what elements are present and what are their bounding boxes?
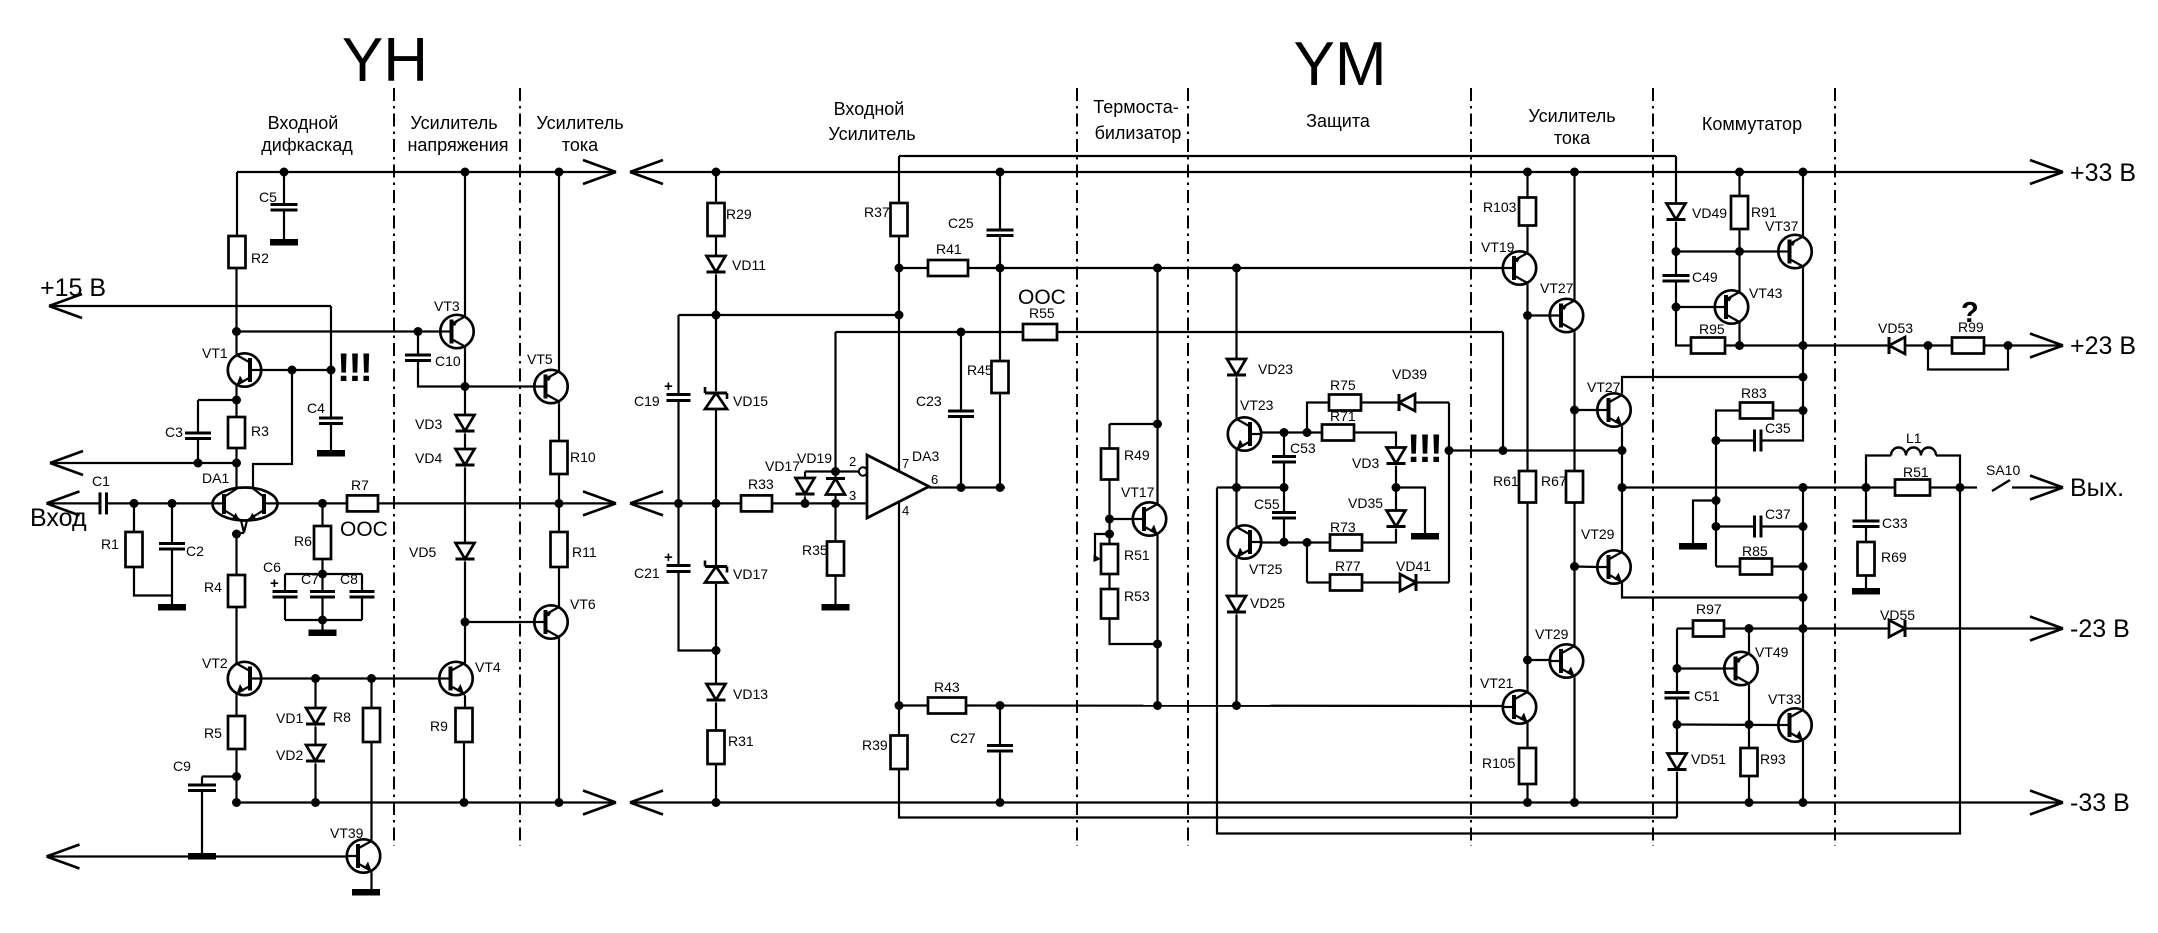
node: rail VT27u tap bbox=[1570, 168, 1579, 177]
node: VT33 base tap bbox=[1673, 720, 1682, 729]
arrow: VT39 base west bbox=[47, 845, 80, 869]
wire: R43 line to VT21 bbox=[966, 704, 1503, 707]
wire: R41 line segment bbox=[899, 267, 928, 269]
wire: VD17 cathode stub bbox=[804, 497, 806, 504]
svg-text:R69: R69 bbox=[1881, 549, 1907, 565]
svg-text:L1: L1 bbox=[1906, 430, 1922, 446]
svg-text:VT33: VT33 bbox=[1768, 691, 1802, 707]
wire: VT27u base line bbox=[1528, 314, 1550, 316]
wire: rail to C5 bbox=[283, 172, 285, 205]
svg-text:R4: R4 bbox=[204, 579, 222, 595]
node: zener col input tap bbox=[712, 499, 721, 508]
wire: VD35 drop bbox=[1395, 488, 1397, 511]
wire: VT2 base line bbox=[261, 677, 439, 679]
wire: R77 to VD41 bbox=[1362, 581, 1400, 583]
resistor R53 bbox=[1101, 588, 1150, 619]
wire: C55 to VT25 base line bbox=[1283, 518, 1285, 542]
wire: C23 drop bbox=[960, 332, 962, 411]
capacitor C5 bbox=[259, 189, 298, 210]
svg-text:VD5: VD5 bbox=[409, 544, 436, 560]
wire: VT27L emitter bbox=[1621, 427, 1623, 451]
wire: R3 to DA1 bbox=[235, 448, 237, 488]
wire: +15 В line bbox=[49, 305, 331, 307]
svg-text:Коммутатор: Коммутатор bbox=[1702, 114, 1802, 134]
resistor R49 bbox=[1101, 447, 1150, 480]
transistor VT39 bbox=[330, 825, 380, 873]
node: VT37 emitter +23 tap bbox=[1799, 341, 1808, 350]
wire: VT27u collector bbox=[1573, 172, 1575, 299]
wire: SA10 to arrow bbox=[2012, 486, 2063, 488]
node: C55-R77 tap bbox=[1303, 538, 1312, 547]
svg-text:Термоста-: Термоста- bbox=[1093, 97, 1178, 117]
wire: R45 to output bbox=[999, 393, 1001, 488]
node: R3 bottom / left-line end bbox=[232, 459, 241, 468]
node: R1 tap bbox=[130, 499, 139, 508]
svg-text:Защита: Защита bbox=[1306, 111, 1371, 131]
svg-text:Усилитель: Усилитель bbox=[828, 124, 915, 144]
wire: VD17z to node bbox=[715, 584, 717, 651]
wire: VT39 base line bbox=[47, 855, 347, 857]
capacitor C10 bbox=[405, 353, 461, 369]
svg-text:VT25: VT25 bbox=[1249, 561, 1283, 577]
diode VD2 bbox=[276, 745, 325, 763]
capacitor C6 bbox=[263, 559, 298, 597]
node: pin2 / VD19 junction bbox=[831, 467, 840, 476]
node: C35 left bbox=[1712, 436, 1721, 445]
zener VD17 (lower) bbox=[705, 561, 768, 583]
diode VD51 bbox=[1668, 751, 1727, 770]
wire: R8 to VT39 collector bbox=[370, 742, 372, 840]
svg-text:C4: C4 bbox=[307, 400, 325, 416]
node: R8 tap bbox=[367, 674, 376, 683]
wire: VT49 base line bbox=[1677, 667, 1724, 669]
capacitor C19 bbox=[634, 378, 691, 409]
wire: VD19 bottom stub bbox=[834, 495, 836, 504]
transistor VT5 bbox=[527, 351, 568, 403]
wire: VT37 emitter to y377 bbox=[1802, 346, 1804, 378]
wire: C4 to ground bbox=[330, 424, 332, 451]
node: VT49 base tap bbox=[1673, 664, 1682, 673]
transistor VT17 bbox=[1121, 484, 1166, 536]
node: VT49 emitter / VT33 base bbox=[1745, 720, 1754, 729]
node: C53 top bbox=[1280, 428, 1289, 437]
svg-text:VT49: VT49 bbox=[1755, 644, 1789, 660]
wire: L1 right riser bbox=[1936, 456, 1960, 488]
node: C9 tap bbox=[232, 772, 241, 781]
wire: pin2 line bbox=[805, 470, 862, 472]
svg-text:+15 В: +15 В bbox=[40, 274, 106, 302]
wire: C4 drop bbox=[330, 370, 332, 418]
svg-text:DA1: DA1 bbox=[202, 470, 229, 486]
svg-text:Вых.: Вых. bbox=[2070, 474, 2124, 502]
svg-text:C35: C35 bbox=[1765, 420, 1791, 436]
switch SA10 bbox=[1986, 462, 2020, 491]
node: VD11 bottom junction bbox=[712, 311, 721, 320]
svg-text:VD55: VD55 bbox=[1880, 607, 1915, 623]
wire: R83 left link bbox=[1716, 411, 1740, 441]
wire: R11 to VT6 collector bbox=[558, 567, 560, 606]
wire: +23 line R95-VD53 bbox=[1725, 344, 1889, 346]
wire: R4 to VT2 collector bbox=[235, 607, 237, 662]
wire: R9 to rail bbox=[463, 742, 465, 803]
label ООС (УМ) bbox=[1018, 286, 1066, 309]
resistor R11 bbox=[551, 532, 597, 567]
header: Защита bbox=[1306, 111, 1371, 131]
wire: input to VD17z bbox=[715, 503, 717, 565]
wire: junction to ground bbox=[1396, 488, 1425, 534]
svg-text:C10: C10 bbox=[435, 353, 461, 369]
svg-text:VT27: VT27 bbox=[1587, 379, 1621, 395]
arrow: УМ -33 rail west bbox=[630, 791, 663, 815]
svg-text:VT43: VT43 bbox=[1749, 285, 1783, 301]
node: VT1 collector / VT3 base line bbox=[232, 327, 241, 336]
svg-text:C53: C53 bbox=[1290, 440, 1316, 456]
wire: DA1 emitters to R4 node bbox=[237, 532, 245, 534]
separator line 6 bbox=[1652, 88, 1654, 846]
svg-text:VD15: VD15 bbox=[733, 393, 768, 409]
capacitor C8 bbox=[340, 571, 375, 597]
resistor R41 bbox=[928, 241, 968, 276]
wire: VT43 emitter bbox=[1738, 324, 1740, 346]
wire: R49 lead bbox=[1108, 424, 1110, 449]
svg-text:R45: R45 bbox=[967, 362, 993, 378]
svg-text:DA3: DA3 bbox=[912, 448, 939, 464]
svg-text:C21: C21 bbox=[634, 565, 660, 581]
wire: R51 to R53 bbox=[1108, 574, 1110, 589]
diode VD39 bbox=[1392, 366, 1427, 411]
wire: VT27L base line bbox=[1575, 409, 1598, 411]
svg-text:VD13: VD13 bbox=[733, 686, 768, 702]
wire: R103 to VT19 bbox=[1526, 226, 1528, 252]
transistor VT29 (lower) bbox=[1535, 626, 1583, 678]
header: Усилитель (УМ) bbox=[828, 124, 915, 144]
wire: VT17 base line bbox=[1110, 518, 1133, 520]
svg-text:2: 2 bbox=[849, 454, 856, 469]
wire: left column R97 down bbox=[1676, 629, 1678, 693]
wire: R67 to VT29L bbox=[1573, 503, 1575, 645]
svg-text:7: 7 bbox=[902, 456, 909, 471]
svg-text:VT21: VT21 bbox=[1480, 675, 1514, 691]
svg-text:R93: R93 bbox=[1760, 751, 1786, 767]
node: rail R91 tap bbox=[1735, 168, 1744, 177]
wire: R77 drop bbox=[1306, 543, 1308, 583]
wire: R99 bypass loop bbox=[1928, 346, 2008, 370]
svg-text:Входной: Входной bbox=[834, 99, 905, 119]
svg-text:R53: R53 bbox=[1124, 588, 1150, 604]
separator line 1 bbox=[393, 88, 395, 846]
node: R75 tap bbox=[1303, 428, 1312, 437]
wire: УН top rail bbox=[237, 171, 616, 173]
resistor R10 bbox=[551, 441, 596, 474]
wire: C9 link bbox=[202, 775, 237, 777]
arrow: +15 В west bbox=[49, 294, 82, 318]
wire: y450 to y487 bbox=[1621, 451, 1623, 488]
wire: R85 right lead bbox=[1772, 565, 1803, 567]
node: cap bank top bbox=[318, 570, 327, 579]
wire: C23 to output bbox=[960, 417, 962, 488]
svg-text:R31: R31 bbox=[728, 733, 754, 749]
wire: C2 to ground bbox=[171, 549, 173, 604]
wire: VT21 emitter to R105 bbox=[1526, 724, 1528, 748]
wire: VD15 from y315 bbox=[715, 315, 717, 391]
ground: under cap bank bbox=[309, 620, 337, 636]
diode VD25 bbox=[1227, 595, 1285, 612]
node: R93 rail tap bbox=[1745, 798, 1754, 807]
svg-text:VT29: VT29 bbox=[1581, 526, 1615, 542]
node: C4 / +15V tap bbox=[327, 366, 336, 375]
diode VD23 bbox=[1227, 359, 1293, 377]
svg-text:VT5: VT5 bbox=[527, 351, 553, 367]
node: VD19/R35 tap bbox=[831, 499, 840, 508]
resistor R8 bbox=[333, 708, 380, 742]
resistor R43 bbox=[928, 679, 966, 714]
transistor VT6 bbox=[534, 596, 596, 639]
node: R61 col rail tap bbox=[1523, 798, 1532, 807]
svg-text:R61: R61 bbox=[1493, 473, 1519, 489]
arrow: УМ signal west bbox=[630, 491, 663, 515]
resistor R75 bbox=[1329, 377, 1361, 411]
node: VD17 tap bbox=[801, 499, 810, 508]
capacitor C49 bbox=[1663, 269, 1718, 285]
node: R99 left bbox=[1924, 341, 1933, 350]
svg-text:+: + bbox=[664, 378, 673, 395]
node: VT27L base tap bbox=[1570, 406, 1579, 415]
resistor R61 bbox=[1493, 471, 1536, 503]
svg-text:+23 В: +23 В bbox=[2070, 332, 2136, 360]
header: Усилитель (напряжения) bbox=[410, 113, 497, 133]
svg-text:VD51: VD51 bbox=[1691, 751, 1726, 767]
wire: R45 drop bbox=[999, 268, 1001, 361]
wire: C10 bottom to VT5 base line bbox=[418, 361, 465, 387]
resistor R4 bbox=[204, 575, 245, 607]
arrow: -23 rail east bbox=[2030, 617, 2063, 641]
wire: VT1 emitter bbox=[235, 387, 237, 417]
svg-text:C1: C1 bbox=[92, 473, 110, 489]
wire: cap bank top line bbox=[285, 573, 362, 575]
node: VT3 emitter / VD3 / VT5 base bbox=[461, 382, 470, 391]
svg-text:-23 В: -23 В bbox=[2070, 615, 2130, 643]
wire: ground stub link bbox=[1693, 501, 1716, 544]
arrow: УН top rail east bbox=[583, 160, 616, 184]
wire: C49 node to R95 bbox=[1676, 307, 1691, 346]
separator line 2 bbox=[519, 88, 521, 846]
wire: VT29u emitter link bbox=[1622, 584, 1803, 598]
svg-text:C51: C51 bbox=[1694, 688, 1720, 704]
wire: C27 to rail bbox=[999, 751, 1001, 803]
capacitor C33 bbox=[1853, 515, 1908, 531]
wire: R33 to op-amp pin3 bbox=[772, 502, 867, 504]
wire: R37 to op-amp pin7 bbox=[898, 236, 900, 471]
wire: left line y463 bbox=[50, 462, 237, 464]
resistor R97 bbox=[1693, 601, 1724, 637]
node: y597 junction bbox=[1799, 593, 1808, 602]
wire: C51 to VT33 base node bbox=[1676, 698, 1678, 754]
svg-text:C55: C55 bbox=[1254, 496, 1280, 512]
wire: C53 to y487 bbox=[1283, 462, 1285, 488]
svg-text:+: + bbox=[270, 575, 279, 592]
svg-text:R35: R35 bbox=[802, 542, 828, 558]
wire: cap bank bottom line bbox=[285, 619, 362, 621]
wire: R7 to rail arrow bbox=[378, 502, 616, 504]
wire: VT39 emitter bbox=[370, 873, 372, 889]
svg-text:3: 3 bbox=[849, 488, 856, 503]
ground: under C4 bbox=[317, 450, 345, 457]
node: C25 bottom bbox=[996, 264, 1005, 273]
wire: feedback corner to VD49 bbox=[1675, 156, 1677, 204]
svg-text:Усилитель: Усилитель bbox=[536, 113, 623, 133]
wire: +15 В drop to VT1 base node bbox=[330, 306, 332, 370]
node: R31 rail tap bbox=[712, 798, 721, 807]
wire: Вход to C1 bbox=[47, 502, 101, 504]
wire: C1 to DA1 base bbox=[107, 502, 213, 504]
inductor L1 bbox=[1891, 430, 1936, 456]
svg-text:R9: R9 bbox=[430, 718, 448, 734]
resistor R45 bbox=[967, 361, 1009, 393]
svg-text:R10: R10 bbox=[570, 449, 596, 465]
wire: R83 right lead bbox=[1773, 409, 1803, 411]
svg-text:R105: R105 bbox=[1482, 755, 1516, 771]
node: zener col bottom bbox=[712, 646, 721, 655]
resistor R67 bbox=[1541, 471, 1583, 503]
wire: R97 left link bbox=[1677, 627, 1693, 629]
wire: C7 to bottom bbox=[321, 597, 323, 620]
resistor R103 bbox=[1483, 198, 1536, 226]
wire: C8 drop bbox=[361, 574, 363, 592]
node: rail C5 tap bbox=[280, 168, 289, 177]
wire: R105 to rail bbox=[1526, 784, 1528, 803]
node: R99 right bbox=[2004, 341, 2013, 350]
ground: under C9 bbox=[188, 853, 216, 860]
node: R85 right bbox=[1799, 562, 1808, 571]
resistor R105 bbox=[1482, 748, 1536, 784]
svg-text:VD2: VD2 bbox=[276, 747, 303, 763]
node: y377 junction bbox=[1799, 373, 1808, 382]
svg-text:R39: R39 bbox=[862, 737, 888, 753]
wire: y450 line bbox=[1449, 449, 1622, 451]
svg-text:напряжения: напряжения bbox=[407, 135, 508, 155]
wire: VD19 top stub bbox=[834, 472, 836, 479]
node: rail VT5 tap bbox=[555, 168, 564, 177]
svg-text:C27: C27 bbox=[950, 730, 976, 746]
node: rail R103 tap bbox=[1523, 168, 1532, 177]
node: VT29u base tap bbox=[1570, 562, 1579, 571]
wire: VT27L collector link bbox=[1622, 377, 1803, 393]
svg-text:VD11: VD11 bbox=[732, 257, 766, 273]
wire: VT19 emitter column bbox=[1526, 285, 1528, 471]
wire: УМ input line bbox=[630, 502, 741, 504]
wire: R31 to rail bbox=[715, 764, 717, 803]
wire: R41 line to VT19 bbox=[968, 267, 1503, 269]
svg-text:C3: C3 bbox=[165, 424, 183, 440]
wire: VT33 collector bbox=[1802, 629, 1804, 709]
ground: commutator mid bbox=[1679, 543, 1707, 550]
node: cap bank bottom bbox=[318, 616, 327, 625]
svg-text:дифкаскад: дифкаскад bbox=[261, 135, 353, 155]
svg-text:4: 4 bbox=[902, 503, 909, 518]
transistor VT23 bbox=[1228, 397, 1274, 451]
svg-text:C37: C37 bbox=[1765, 506, 1791, 522]
resistor R71 bbox=[1322, 408, 1356, 441]
svg-text:VT37: VT37 bbox=[1765, 218, 1799, 234]
wire: termo column bottom bbox=[1156, 536, 1158, 706]
svg-text:Входной: Входной bbox=[268, 113, 339, 133]
header: Усилитель (тока УМ) bbox=[1528, 106, 1615, 126]
arrow: +23 rail east bbox=[2030, 334, 2063, 358]
wire: VT3 emitter bbox=[464, 348, 466, 386]
wire: ООС line left bbox=[836, 331, 1024, 333]
wire: VT5 emitter to R10 bbox=[558, 403, 560, 441]
svg-text:VT19: VT19 bbox=[1481, 239, 1515, 255]
wire: VD39-VD41 vertical bbox=[1448, 403, 1450, 583]
svg-text:C7: C7 bbox=[301, 571, 319, 587]
wire: C10 drop bbox=[417, 332, 419, 356]
resistor R2 bbox=[229, 236, 270, 268]
svg-text:VD17: VD17 bbox=[765, 458, 800, 474]
wire: R4 from DA1 bbox=[235, 534, 237, 575]
wire: C35 right link bbox=[1761, 411, 1803, 441]
node: C23 bottom bbox=[957, 483, 966, 492]
node: VT23 emitter junction bbox=[1232, 483, 1241, 492]
ground: protection bbox=[1411, 533, 1439, 540]
wire: C37 left lead bbox=[1716, 525, 1755, 527]
node: rail VT37 tap bbox=[1799, 168, 1808, 177]
diode VD41 bbox=[1396, 558, 1431, 591]
node: rail C25 tap bbox=[996, 168, 1005, 177]
wire: L1 left riser bbox=[1866, 456, 1891, 488]
wire: VD13 to R31 bbox=[715, 703, 717, 731]
node: protection output bbox=[1445, 446, 1454, 455]
capacitor C25 bbox=[948, 215, 1014, 236]
label Вход bbox=[30, 504, 87, 532]
svg-text:C33: C33 bbox=[1882, 515, 1908, 531]
wire: to VD3 bbox=[464, 387, 466, 416]
wire: C49 to VT43 base node bbox=[1675, 281, 1677, 307]
mark ? (R99) bbox=[1961, 297, 1979, 329]
svg-text:VD17: VD17 bbox=[733, 566, 768, 582]
wire: rail to R29 bbox=[715, 172, 717, 203]
diode VD11 bbox=[707, 256, 767, 273]
separator line 3 bbox=[1076, 88, 1078, 846]
node: rail VT3 tap bbox=[461, 168, 470, 177]
node: R91 bottom bbox=[1735, 247, 1744, 256]
wire: R85 left link bbox=[1716, 565, 1740, 567]
ground: under R69 bbox=[1852, 576, 1880, 595]
wiper arrow R51 bbox=[1094, 534, 1110, 562]
op-amp DA3 bbox=[849, 448, 939, 518]
svg-text:VD19: VD19 bbox=[797, 450, 832, 466]
svg-text:R33: R33 bbox=[748, 476, 774, 492]
wire: VD51 to routing bbox=[1676, 772, 1678, 818]
resistor R51 (подстроечный) bbox=[1101, 544, 1150, 574]
separator line 4 bbox=[1187, 88, 1189, 846]
svg-text:?: ? bbox=[1961, 297, 1979, 329]
wire: C5 to ground bbox=[283, 210, 285, 239]
svg-text:VD41: VD41 bbox=[1396, 558, 1431, 574]
wire: VT29L emitter to rail bbox=[1573, 678, 1575, 803]
node: VT43 emitter +23 tap bbox=[1735, 341, 1744, 350]
wire: base node to R51 bbox=[1108, 519, 1110, 544]
wire: R35 drop bbox=[834, 503, 836, 541]
svg-text:VD23: VD23 bbox=[1258, 361, 1293, 377]
resistor R1 bbox=[101, 532, 143, 567]
svg-text:R2: R2 bbox=[251, 250, 269, 266]
transistor VT43 bbox=[1715, 285, 1783, 324]
svg-text:VT17: VT17 bbox=[1121, 484, 1155, 500]
wire: VT23 emitter bbox=[1235, 451, 1237, 488]
node: VT29L base tap bbox=[1523, 656, 1532, 665]
resistor R35 bbox=[802, 542, 844, 576]
wire: protection routing down bbox=[1217, 488, 1960, 834]
